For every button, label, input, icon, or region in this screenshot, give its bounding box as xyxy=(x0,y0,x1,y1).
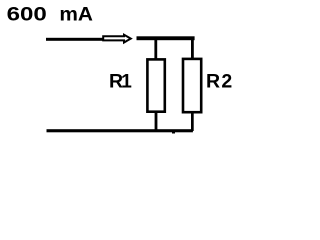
wire top bar connecting R1 and R2 tops xyxy=(137,36,195,40)
svg-text:600: 600 xyxy=(7,4,47,26)
wire top-left horizontal segment xyxy=(46,38,103,41)
wire lead from top bar to R2 xyxy=(191,40,194,59)
svg-text:mA: mA xyxy=(59,4,93,26)
svg-text:R1: R1 xyxy=(109,70,132,92)
wire lead from R1 to bottom wire xyxy=(155,112,158,131)
resistor R2 xyxy=(183,59,201,112)
wire bottom horizontal segment xyxy=(47,129,193,132)
wire lead from top bar to R1 xyxy=(154,40,157,60)
junction nub below bottom wire xyxy=(172,132,175,134)
resistor R1 xyxy=(147,59,164,111)
svg-text:R2: R2 xyxy=(206,70,234,92)
wire lead from R2 to bottom wire xyxy=(191,112,194,131)
arrow current direction (outline block arrow) xyxy=(103,35,131,43)
